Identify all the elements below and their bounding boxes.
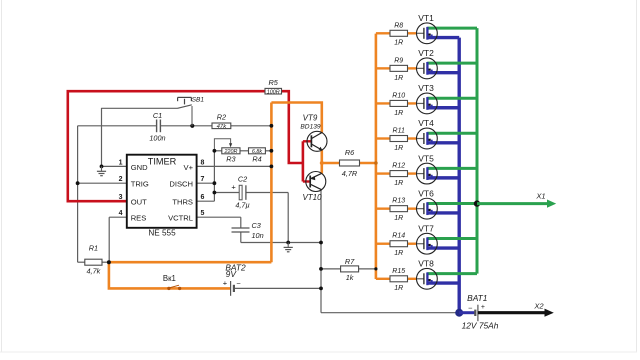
svg-text:3: 3 [119,194,123,201]
node: blue bus to BAT1 [455,309,463,317]
wire: BAT2 minus to ground bus [235,287,322,289]
resistor R9 [390,65,408,71]
wire: VT8 source to blue bus [427,281,459,284]
wire: VT3 drain to green bus [427,97,477,100]
capacitor C3 [232,227,250,229]
svg-text:1R: 1R [394,40,403,47]
wire: R6 to gate bus (orange) [360,162,376,165]
transistor VT2 (MOSFET) [417,58,438,79]
wire: VT3 source to blue bus [427,106,459,109]
svg-text:1k: 1k [346,273,354,282]
svg-text:THRS: THRS [172,198,193,207]
gate wire VT1 (orange) [376,32,390,34]
svg-text:VT2: VT2 [418,48,434,58]
wire: node to VT10 emitter (orange) [320,163,323,173]
node: ground bus top [319,241,323,245]
resistor R5 [265,88,282,94]
svg-text:Вк1: Вк1 [163,274,176,283]
wire: R7 left lead [321,268,341,270]
node: V+ / R1 / RES [107,260,111,264]
gate wire VT7 (orange) [376,243,390,245]
transistor VT3 (MOSFET) [417,93,438,114]
battery BAT2 [230,281,232,296]
svg-text:VT4: VT4 [418,118,434,128]
svg-text:R2: R2 [217,113,226,122]
svg-text:100n: 100n [149,134,165,143]
svg-text:12V 75Ah: 12V 75Ah [462,321,499,331]
wire: R3 left lead [214,150,221,152]
wire: R4 to V+ bus [265,150,271,152]
wire: green bus (drains) [476,28,479,274]
wire: R2 to V+ bus [231,125,272,127]
node: R4 at V+ bus [270,149,274,153]
gate wire VT3 (orange) [376,102,390,104]
svg-text:1R: 1R [394,250,403,257]
wire: GND pin1 to ground node [102,165,127,167]
svg-text:R11: R11 [393,128,405,135]
svg-text:OUT: OUT [131,198,147,207]
gate wire VT5 (orange) [376,172,390,174]
transistor VT4 (MOSFET) [417,128,438,149]
svg-text:+: + [481,304,485,311]
svg-text:R5: R5 [269,78,279,87]
svg-text:VT1: VT1 [418,13,434,23]
node: R3 left / DISCH [213,149,217,153]
wire: V+ bottom rail (orange) [109,262,272,288]
transistor VT5 (MOSFET) [417,163,438,184]
wire: THRS node to C2 [214,192,239,194]
wire: VT4 source to blue bus [427,141,459,144]
wire: VT9 base stub (red) [303,140,312,142]
wire: TRIG pin2 [78,182,127,184]
svg-text:R12: R12 [392,163,405,170]
wire: VT7 drain to green bus [427,237,477,240]
svg-text:1R: 1R [394,215,403,222]
ground (timer bypass) [286,241,290,245]
wire: OUT pin3 to R5 (red) [68,91,265,201]
svg-text:C1: C1 [153,111,162,120]
resistor R7 [341,266,359,272]
svg-text:R10: R10 [392,92,405,99]
gate wire VT6 (orange) [376,207,390,209]
wire: VCTRL pin5 to C3 [197,216,241,218]
svg-text:−: − [468,304,473,313]
wire: node to R6 (orange) [322,162,340,165]
wire: R5 to driver bases (red) [282,91,303,163]
node: pin8 at V+ bus [270,165,274,169]
terminal X2 (black arrow) [478,311,545,314]
wire: SB1 left riser to GND node [101,108,103,166]
resistor R12 [390,171,408,177]
transistor VT9 (BD139) [300,114,327,152]
capacitor C1 [156,120,158,133]
svg-text:BAT1: BAT1 [467,293,487,303]
wire: ground bus vertical (VT10 collector to bottom rail) [320,190,322,313]
svg-text:7: 7 [201,176,205,183]
svg-text:5: 5 [201,210,205,217]
wire: VT9 emitter to node (orange) [320,150,323,163]
svg-text:1R: 1R [394,110,403,117]
svg-text:1R: 1R [394,145,403,152]
svg-text:10n: 10n [252,231,264,240]
svg-text:R9: R9 [394,57,403,64]
svg-text:X2: X2 [533,301,544,310]
node: BAT2 minus [319,287,323,291]
wire: R1 right lead [102,261,109,263]
battery BAT1 [474,310,476,316]
svg-text:9V: 9V [226,269,238,279]
wire: VT10 base stub (red) [303,180,310,182]
gate wire VT8 (orange) [376,278,390,280]
svg-text:BD139: BD139 [300,124,320,131]
wire: SB1 left feed [102,107,178,109]
svg-text:+: + [231,183,236,192]
wire: VT1 source to blue bus [427,36,459,39]
svg-text:1R: 1R [394,285,403,292]
transistor VT8 (MOSFET) [417,268,438,289]
svg-text:DISCH: DISCH [169,180,193,189]
svg-text:4,7R: 4,7R [342,169,358,178]
wire: VT2 source to blue bus [427,71,459,74]
transistor VT10 [302,172,325,203]
switch Bk1 [167,287,170,290]
wire: C2 to ground drop [246,192,288,194]
wire: VT6 source to blue bus [427,211,459,214]
svg-text:4,7k: 4,7k [87,266,101,275]
svg-text:V+: V+ [184,163,194,172]
op-amp / timer IC U1 NE 555 [127,155,197,228]
wire: TRIG riser / R1 feed [77,126,79,262]
svg-text:+: + [223,279,228,288]
wire: R3 to R4 [240,150,249,152]
svg-text:VT10: VT10 [302,193,322,202]
wire: V+ bus vertical (orange) [270,103,273,263]
wire: ground line [241,242,321,244]
svg-text:TRIG: TRIG [131,180,149,189]
transistor VT6 (MOSFET) [417,198,438,219]
resistor R6 [340,160,360,166]
wire: DISCH riser to R3 and down to THRS [213,151,215,201]
svg-text:R14: R14 [392,233,405,240]
node: R6 at gate bus [374,161,378,165]
gate wire VT2 (orange) [376,67,390,69]
wire: to BAT1 (blue) [459,311,474,314]
wire: R7 right lead to gate bus [359,268,376,270]
wire: blue bus (sources) [458,38,461,313]
resistor R8 [390,30,408,36]
svg-text:R13: R13 [392,198,405,205]
svg-text:47k: 47k [217,124,228,130]
node: X1 tap [474,200,480,206]
svg-text:1R: 1R [394,180,403,187]
wire: C1 line (TRIG side) [78,125,157,127]
resistor R2 [212,123,231,129]
wire: VT5 drain to green bus [427,167,477,170]
svg-text:R6: R6 [345,148,355,157]
node: DISCH pin7 [213,181,217,185]
svg-text:VCTRL: VCTRL [168,214,193,223]
wire: C3 bottom to ground line [240,232,242,243]
svg-text:VT5: VT5 [418,153,434,163]
svg-text:4,7µ: 4,7µ [235,201,249,210]
svg-text:R1: R1 [89,243,98,252]
svg-text:2: 2 [119,176,123,183]
terminal X1 (green arrow) [477,202,547,205]
wire: VT5 source to blue bus [427,176,459,179]
ground (pin 1) [100,165,104,169]
svg-text:R7: R7 [345,257,355,266]
svg-text:8: 8 [201,159,205,166]
svg-text:C2: C2 [238,174,247,183]
svg-text:C3: C3 [252,221,261,230]
svg-text:R15: R15 [392,268,405,275]
resistor R15 [390,276,408,282]
node: R2 at V+ bus [270,124,274,128]
resistor R4 [249,148,266,154]
wire: V+ pin8 to V+ bus [197,165,272,167]
svg-text:4: 4 [119,210,123,217]
svg-text:TIMER: TIMER [148,157,177,167]
svg-text:X1: X1 [535,191,545,200]
wire: VT2 drain to green bus [427,62,477,65]
wire: RES pin4 to V+ node [109,216,127,218]
transistor VT7 (MOSFET) [417,233,438,254]
capacitor C2 [239,185,242,200]
svg-text:VT9: VT9 [303,114,318,123]
svg-text:SB1: SB1 [192,97,205,104]
node: THRS / C2 [213,191,217,195]
svg-text:R4: R4 [252,155,261,164]
svg-text:GND: GND [131,163,148,172]
node: R7 tap [319,267,323,271]
wire: VT6 drain to green bus [427,202,477,205]
resistor R10 [390,100,408,106]
transistor VT1 (MOSFET) [417,23,438,44]
resistor R11 [390,136,408,142]
resistor R14 [390,241,408,247]
wire: bottom rail to BAT1 [321,312,456,314]
svg-text:100R: 100R [267,89,280,95]
wire: VT4 drain to green bus [427,132,477,135]
svg-text:RES: RES [131,214,147,223]
resistor R1 [85,259,102,265]
gate wire VT4 (orange) [376,137,390,139]
wire: node A to R2 [161,125,212,127]
wire: gate bus vertical (orange) [375,34,378,279]
wire: V+ to VT9 collector (orange) [271,103,321,133]
svg-text:VT3: VT3 [418,83,434,93]
svg-text:R8: R8 [394,22,403,29]
node: driver output [320,161,324,165]
resistor R3 (trimmer) [222,148,240,154]
svg-text:1R: 1R [394,75,403,82]
wire: VT1 drain to green bus [427,27,477,30]
node A: C1/R2/SB1 junction [190,124,194,128]
resistor R13 [390,206,408,212]
svg-text:−: − [236,279,241,288]
svg-text:NE 555: NE 555 [148,228,176,237]
node: TRIG junction [76,181,80,185]
svg-text:VT7: VT7 [418,223,434,233]
wire: THRS pin6 stub [197,200,215,202]
pushbutton SB1 [178,105,192,109]
svg-text:VT6: VT6 [418,188,434,198]
wire: VT8 drain to green bus [427,272,477,275]
svg-text:R3: R3 [226,155,235,164]
svg-text:VT8: VT8 [418,258,434,268]
wire: DISCH pin7 stub [197,182,215,184]
svg-text:1: 1 [119,159,123,166]
wire: VT7 source to blue bus [427,246,459,249]
svg-text:6: 6 [201,194,205,201]
